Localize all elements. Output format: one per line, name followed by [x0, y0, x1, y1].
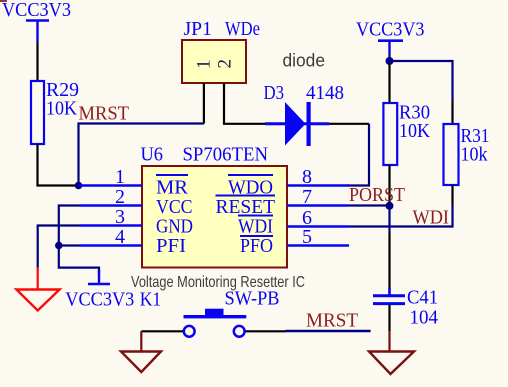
- wire (C41 bottom to ground): [388, 305, 390, 331]
- svg-text:10k: 10k: [461, 144, 488, 166]
- pin 4 lead: [80, 244, 142, 246]
- wire (pin 7 to node D): [349, 204, 390, 206]
- svg-text:104: 104: [410, 307, 439, 329]
- pin 7 lead: [287, 204, 349, 206]
- JP1 pin 1 lead: [203, 83, 205, 124]
- svg-text:PFI: PFI: [156, 235, 186, 257]
- ground (below C41): [369, 352, 414, 375]
- svg-text:5: 5: [302, 226, 312, 248]
- svg-text:SP706TEN: SP706TEN: [183, 144, 269, 166]
- wire (down to pin 8): [347, 124, 369, 186]
- sheet corner mark: [0, 0, 7, 2]
- power VCC3V3 (top-right): [356, 19, 425, 54]
- pin 3 lead: [80, 224, 142, 226]
- svg-text:4148: 4148: [306, 82, 344, 104]
- resistor R31: [444, 124, 490, 185]
- pin 5 lead (unconnected): [287, 244, 349, 246]
- wire (R31 to pin 6 WDI net): [349, 205, 453, 227]
- svg-text:7: 7: [302, 186, 312, 208]
- svg-text:4: 4: [115, 226, 125, 248]
- op IC U6 box: [141, 144, 288, 268]
- svg-text:C41: C41: [407, 287, 438, 309]
- svg-text:JP1: JP1: [184, 18, 213, 40]
- svg-text:VCC3V3: VCC3V3: [356, 19, 425, 41]
- node B junction: [55, 242, 63, 250]
- power VCC3V3 (down, bottom-left): [65, 270, 134, 311]
- svg-text:PFO: PFO: [240, 235, 273, 257]
- resistor R29: [31, 79, 79, 144]
- ground (bottom-left, red): [16, 268, 59, 311]
- wire (to C41 top): [388, 233, 390, 289]
- pin 8 lead: [287, 184, 349, 186]
- svg-text:diode: diode: [283, 51, 326, 71]
- svg-text:K1: K1: [140, 289, 162, 311]
- pin name RESET with overbar: [216, 196, 276, 219]
- wire (node C right to R31 top): [390, 61, 453, 101]
- wire (node D down): [388, 206, 390, 233]
- pin name WDO with overbar: [228, 175, 273, 199]
- wire (R29 bottom to node A): [38, 144, 79, 186]
- svg-text:1: 1: [115, 166, 125, 188]
- wire (power stem to node C): [388, 53, 390, 62]
- wire (diode cathode right): [329, 123, 369, 125]
- svg-text:10K: 10K: [399, 120, 430, 142]
- svg-text:SW-PB: SW-PB: [225, 288, 280, 310]
- R30 bottom lead: [388, 165, 390, 206]
- pin 1 lead: [79, 184, 142, 186]
- svg-text:WDI: WDI: [413, 207, 450, 229]
- svg-text:2: 2: [215, 59, 236, 69]
- node A junction: [75, 182, 83, 190]
- svg-text:D3: D3: [264, 82, 285, 104]
- svg-text:VCC3V3: VCC3V3: [2, 0, 71, 21]
- wire MRST net (node A up and right to JP1 pin 1): [79, 124, 204, 186]
- capacitor C41: [373, 287, 438, 329]
- svg-text:2: 2: [115, 186, 125, 208]
- pin name WDI with overbar: [238, 216, 273, 238]
- node D junction (PORST): [386, 202, 394, 210]
- resistor R30: [383, 102, 430, 166]
- R31 top lead: [451, 101, 453, 124]
- svg-text:MRST: MRST: [306, 310, 358, 332]
- node C junction: [386, 57, 394, 65]
- svg-text:VCC3V3: VCC3V3: [65, 289, 134, 311]
- svg-text:8: 8: [302, 166, 312, 188]
- R30 top lead: [388, 64, 390, 103]
- wire (VCC3V3 to R29 top): [36, 42, 38, 81]
- diode D3: [264, 82, 345, 146]
- svg-text:10K: 10K: [46, 98, 77, 120]
- JP1 pin 2 lead / wire to diode anode: [224, 83, 265, 124]
- wire (switch left to ground): [140, 331, 142, 351]
- R31 bottom lead: [451, 185, 453, 205]
- svg-text:WDe: WDe: [225, 18, 260, 40]
- wire (pin 3 GND to left and down): [38, 226, 80, 268]
- pin name MR with overbar: [156, 175, 189, 199]
- pin 2 lead: [80, 204, 142, 206]
- svg-text:MRST: MRST: [79, 103, 130, 125]
- svg-text:3: 3: [115, 206, 125, 228]
- connector JP1: [182, 18, 260, 83]
- svg-text:U6: U6: [141, 144, 164, 166]
- wire (pin 2 VCC to left and down): [59, 206, 99, 277]
- ground (below switch): [121, 352, 161, 373]
- svg-text:1: 1: [194, 60, 215, 70]
- pin 6 lead: [287, 225, 349, 227]
- wire stem (maroon): [388, 331, 390, 352]
- pin name PFO with overbar: [240, 235, 273, 257]
- switch K1 SW-PB: [140, 288, 286, 337]
- wire MRST net (bottom): [286, 330, 371, 332]
- wire (pin 4 PFI to node B): [59, 244, 80, 246]
- svg-text:PORST: PORST: [349, 184, 405, 206]
- power VCC3V3 (top-left): [2, 0, 71, 42]
